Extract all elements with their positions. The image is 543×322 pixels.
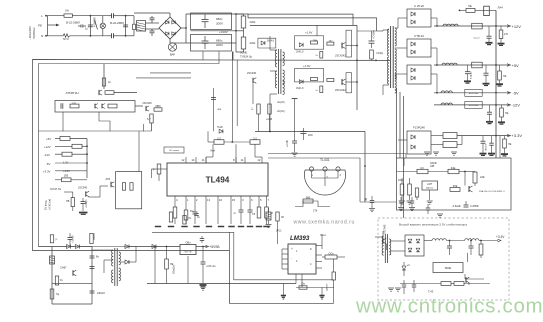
wire bridge right — [181, 27, 186, 29]
wire drive cell feed — [316, 25, 318, 35]
wire var2 lower bus — [400, 283, 441, 285]
svg-text:PE: PE — [38, 24, 42, 28]
resistor R96 — [50, 289, 54, 299]
wire jog — [295, 201, 313, 207]
ic box var2 — [433, 263, 463, 273]
LM393 pins left — [282, 248, 288, 250]
svg-text:Б-ЦМБГ: Б-ЦМБГ — [471, 70, 473, 79]
rail +5V coil — [442, 63, 457, 65]
svg-text:13: 13 — [207, 198, 211, 202]
svg-text:270: 270 — [504, 33, 509, 36]
wire top rail — [459, 9, 466, 11]
diode D44 — [152, 245, 156, 249]
IC U4 regulator — [180, 245, 196, 255]
resistor R14 — [108, 104, 117, 108]
rail -12V res — [500, 108, 504, 117]
wire vertical with bar — [292, 98, 298, 100]
wire box drops — [138, 131, 140, 171]
capacitor C80 — [90, 255, 95, 257]
svg-text:POWER: POWER — [92, 17, 96, 27]
T1 primary winding — [388, 29, 390, 56]
capacitor C24 small — [200, 238, 205, 240]
svg-text:1N14.8: 1N14.8 — [267, 41, 275, 43]
capacitor Cy — [88, 24, 93, 26]
resistor R1 220k — [241, 16, 246, 28]
wire row5 — [55, 170, 87, 172]
components below TL494 — [173, 207, 177, 218]
resistor R95 — [55, 276, 58, 285]
resistor R90 — [479, 244, 483, 255]
svg-text:50/60Hz: 50/60Hz — [32, 27, 36, 39]
resistor R22 — [62, 152, 72, 156]
svg-text:+10ч25: +10ч25 — [73, 235, 75, 243]
svg-text:680x: 680x — [216, 39, 223, 43]
wire standby mid — [52, 282, 92, 284]
resistor R65 — [327, 79, 334, 82]
capacitor C23 10n — [194, 213, 199, 215]
svg-text:2SC945: 2SC945 — [78, 187, 88, 190]
wire bridge top — [169, 13, 171, 17]
svg-text:КА-78: КА-78 — [185, 251, 192, 254]
diode D43 — [125, 260, 129, 264]
svg-text:ЧЧОГФ: ЧЧОГФ — [485, 143, 488, 151]
transistor Q17 — [252, 78, 254, 84]
wire standby right vertical — [91, 247, 93, 305]
IC U2 LM393 box — [288, 244, 316, 274]
svg-text:100n: 100n — [398, 180, 404, 182]
rail +3.3V res — [503, 139, 507, 148]
thermistor NTC — [63, 34, 70, 37]
svg-text:+12V: +12V — [44, 145, 51, 149]
T1 top lead — [377, 30, 383, 32]
svg-text:ООз: ООз — [328, 252, 334, 256]
svg-text:220k: 220k — [250, 20, 256, 24]
rail -5V coil — [441, 91, 452, 93]
wire T1 to rect mid — [395, 47, 398, 49]
svg-text:Vref: Vref — [210, 149, 215, 153]
transistor Q14 — [85, 191, 87, 196]
bold ground 12a — [486, 121, 493, 123]
capacitor series top — [111, 13, 113, 18]
wire TL431 down — [324, 181, 326, 186]
resistor R2 220k — [241, 37, 246, 49]
capacitor C62 — [427, 204, 429, 208]
main transformer T1 core — [390, 26, 392, 88]
wire top after fuse — [72, 15, 108, 17]
bead on rail +12V — [472, 23, 483, 29]
capacitor C5 — [150, 17, 155, 19]
fuse F1 — [64, 14, 72, 17]
svg-text:(РС): (РС) — [276, 229, 281, 233]
standby feed cap — [68, 237, 73, 239]
svg-text:АТВУ-НВч: АТВУ-НВч — [469, 92, 478, 95]
svg-text:2SC945: 2SC945 — [247, 72, 257, 75]
bold ground 5a — [464, 80, 471, 82]
T1 bottom lead — [383, 84, 389, 86]
wire t4 to bridge — [390, 240, 405, 242]
component M cluster — [154, 108, 162, 111]
resistors above TL494 — [214, 140, 224, 145]
capacitor C85 — [202, 247, 204, 263]
switch POWER — [95, 20, 98, 30]
capacitor C14 pol — [81, 201, 86, 203]
svg-text:+СЧ.Фчч: +СЧ.Фчч — [373, 29, 376, 39]
resistor R64 — [320, 86, 323, 93]
box ATBY1 — [465, 89, 482, 96]
capacitor C20 at 305 — [302, 128, 304, 132]
grounds 3v3 — [399, 200, 405, 202]
TL431 pins — [309, 167, 313, 171]
resistor R53 below — [332, 272, 335, 280]
snubber rect lower — [346, 73, 352, 93]
svg-text:-12V: -12V — [44, 153, 50, 157]
wires T1 down — [396, 88, 398, 158]
comparator row box — [55, 101, 135, 113]
transistor Q1 — [341, 43, 343, 49]
svg-text:+СФ.чАч: +СФ.чАч — [206, 265, 216, 268]
resistor R85 — [415, 188, 418, 197]
svg-text:5Е: 5Е — [468, 4, 472, 8]
wire mid right — [268, 153, 406, 155]
wire node to T1 — [356, 60, 358, 62]
rail +5V cap col a — [467, 65, 469, 72]
resistor R30 285 — [62, 178, 72, 182]
svg-text:+4,2V: +4,2V — [63, 169, 70, 173]
bold ground C14 — [79, 212, 88, 214]
resistor R21 — [72, 144, 82, 148]
wire aux vertical — [236, 60, 238, 126]
wire bottom after NTC — [70, 35, 108, 37]
wire 5vsb out — [196, 246, 207, 248]
capacitor Cx1 — [80, 25, 82, 28]
bold ground cap1 — [486, 42, 493, 44]
svg-text:5V вход: 5V вход — [44, 200, 48, 210]
driver transformer T2 — [278, 49, 280, 94]
upper drive cell box — [295, 36, 324, 49]
startup cap hatched — [50, 256, 55, 264]
wire R53 column to bus — [333, 288, 335, 304]
svg-text:27k: 27k — [313, 209, 318, 213]
grounds above box — [424, 151, 430, 153]
ground bus 1 — [200, 286, 206, 288]
svg-text:1Ф02Л: 1Ф02Л — [97, 292, 105, 295]
wire junction caps to outer — [232, 52, 234, 60]
capacitor C21 pol — [292, 140, 297, 142]
capacitor C61 — [411, 197, 413, 201]
svg-text:НЕ: НЕ — [508, 143, 512, 146]
capacitor C50 — [465, 201, 467, 205]
capacitor C82 — [90, 290, 95, 292]
capacitor C59 — [371, 196, 373, 201]
wire caps feed TL494 — [231, 52, 233, 143]
svg-text:+СЧФуч: +СЧФуч — [85, 199, 88, 208]
svg-text:ОВл: ОВл — [185, 241, 191, 245]
svg-text:12: 12 — [257, 158, 261, 162]
rail +3.3V cap b — [491, 136, 493, 143]
svg-text:www.cntronics.com: www.cntronics.com — [355, 295, 543, 318]
wire T2 right leads — [283, 51, 295, 53]
standby feed resistor b — [90, 234, 93, 244]
capacitor C70 — [449, 241, 451, 247]
svg-text:980: 980 — [306, 196, 311, 200]
wire T2 left leads — [270, 49, 277, 51]
svg-text:22Е: 22Е — [480, 175, 485, 179]
wires rect boxes — [398, 17, 407, 19]
box ATBY2 — [465, 101, 482, 108]
ground row below TL494 — [155, 226, 161, 228]
svg-text:B-22-26BЛ: B-22-26BЛ — [66, 21, 80, 25]
wire bottoms — [269, 94, 271, 132]
diode D10 1N4148 — [299, 43, 303, 47]
rail +5V wire — [434, 64, 510, 66]
wire pair short b — [136, 77, 191, 79]
resistor R54 — [299, 286, 307, 289]
wire var2 verticals — [464, 274, 466, 279]
svg-text:-5V: -5V — [513, 90, 520, 95]
svg-text:1,3V: 1,3V — [63, 161, 69, 165]
svg-text:2-2: 2-2 — [217, 137, 221, 141]
svg-text:ЦЛОбУ: ЦЛОбУ — [327, 283, 329, 291]
small box left of TL494 — [164, 147, 184, 153]
resistor R81 — [448, 169, 459, 173]
svg-text:16В: 16В — [430, 165, 435, 168]
capacitor Cy2 — [123, 24, 128, 26]
svg-text:-С: -С — [233, 212, 236, 215]
left wires TL494 — [158, 174, 160, 181]
wire standby top — [39, 244, 136, 246]
ground bold 2 — [321, 288, 323, 296]
svg-text:ТБЕ: ТБЕ — [313, 40, 318, 42]
wires block — [72, 192, 74, 198]
svg-text:11: 11 — [202, 158, 205, 162]
svg-text:+310V: +310V — [219, 30, 228, 34]
sense bus vertical — [86, 139, 88, 171]
resistor R63 — [311, 78, 318, 81]
resistor R51 — [276, 212, 279, 221]
svg-text:LM?: LM? — [427, 182, 433, 186]
rail +3.3V cap a — [482, 136, 484, 141]
svg-text:2SA-CH-C4+ТО9-4ЛВ1..3: 2SA-CH-C4+ТО9-4ЛВ1..3 — [479, 190, 505, 193]
wire HV bus lower — [248, 18, 377, 31]
svg-text:+1.6V: +1.6V — [303, 64, 311, 68]
svg-text:лчастг: лчастг — [473, 38, 480, 40]
wire bridge bottom — [169, 39, 171, 43]
svg-text:НЕ: НЕ — [505, 112, 509, 115]
svg-text:www.sxemka.narod.ru: www.sxemka.narod.ru — [294, 219, 355, 225]
wire caps to bridge — [152, 22, 159, 24]
wire box drop a — [62, 112, 64, 131]
wire inner loop — [39, 52, 220, 247]
svg-text:СЧ047: СЧ047 — [94, 232, 96, 240]
capacitor C22 kok — [213, 88, 215, 131]
svg-text:СН6Г: СН6Г — [60, 266, 67, 270]
wire right vertical 1 — [125, 16, 127, 36]
svg-text:Пч1Б: Пч1Б — [217, 127, 223, 129]
wire q10 up — [103, 75, 105, 89]
pin numbers top — [185, 157, 187, 163]
svg-text:РЕЗЕ: РЕЗЕ — [445, 267, 452, 270]
svg-text:12: 12 — [181, 158, 185, 162]
main output bus vertical — [495, 10, 497, 158]
rail +12V res 270 — [499, 30, 503, 39]
ground 5vsb bold — [200, 284, 207, 286]
wire input vertical — [47, 16, 49, 36]
svg-text:14: 14 — [191, 158, 195, 162]
snubber diode cluster — [258, 38, 276, 48]
wire connector to caps — [146, 22, 153, 24]
transistor pair Q11 Q12 — [94, 104, 96, 109]
diode D42 — [125, 245, 129, 249]
junction dots misc — [269, 131, 271, 133]
svg-text:N: N — [41, 34, 43, 38]
svg-text:НВ: НВ — [66, 200, 70, 203]
svg-text:ЛА4: ЛА4 — [498, 6, 504, 10]
T1 secondary lead top — [395, 27, 398, 29]
resistor R62 — [327, 42, 334, 45]
pin numbers bottom — [174, 196, 176, 203]
resistor R15 — [150, 114, 153, 123]
transistor Q15 — [110, 182, 112, 187]
wire standby bottom — [52, 303, 92, 305]
diode D12 on bus — [219, 129, 223, 133]
wire bottom bus — [147, 283, 296, 285]
diode D40 — [67, 245, 71, 249]
wire box to rail — [474, 183, 476, 186]
resistor R60 — [311, 41, 318, 44]
wire primary return loop outer — [33, 60, 391, 304]
resistor R80 — [417, 169, 428, 173]
wire AC top — [46, 15, 64, 17]
TL431 package outline — [305, 170, 346, 195]
svg-text:+3.3V: +3.3V — [43, 170, 51, 174]
rail -12V cap — [489, 105, 491, 112]
svg-text:+3.3V: +3.3V — [496, 235, 505, 239]
svg-text:+1.6V: +1.6V — [305, 31, 313, 35]
snubber rect upper — [346, 30, 352, 57]
coupled inductor L33 b — [443, 142, 457, 148]
T4 winding — [384, 234, 386, 263]
svg-text:Vout: Vout — [320, 233, 326, 237]
label -12V — [507, 104, 511, 107]
svg-text:NTC: NTC — [63, 37, 69, 41]
svg-text:2SC945: 2SC945 — [142, 101, 152, 105]
label -5V — [507, 92, 511, 95]
label +5V — [507, 64, 511, 67]
bold ground 12b — [498, 121, 505, 123]
wire feedback right — [268, 165, 397, 167]
svg-text:Т.43: Т.43 — [428, 290, 434, 294]
wire feedback top long — [255, 131, 365, 133]
standby transformer T3 — [114, 248, 116, 286]
svg-text:АТВУ-НВч: АТВУ-НВч — [469, 104, 478, 107]
svg-text:16: 16 — [219, 198, 223, 202]
svg-text:НЕ: НЕ — [503, 75, 507, 78]
LM393 pins right — [316, 245, 322, 247]
wire AC bottom — [46, 35, 63, 37]
svg-text:-: - — [291, 256, 292, 260]
inductor L70 vertical — [484, 6, 490, 15]
svg-text:C 25-20: C 25-20 — [414, 4, 424, 8]
wire tl494 gnd drop — [228, 232, 230, 250]
svg-text:ЗЛЕ: ЗЛЕ — [453, 185, 458, 188]
wire diodebox jogs — [431, 17, 437, 19]
bold ground 33a — [480, 153, 487, 155]
resistor R12 — [105, 91, 114, 95]
rail -12V coil — [441, 103, 452, 105]
resistor R18 — [257, 104, 260, 114]
resistor R50 980 — [303, 199, 313, 203]
diode D41 — [76, 245, 80, 249]
bridge rectifier BR1 — [159, 17, 181, 39]
svg-text:AT6ЯT2H: AT6ЯT2H — [65, 91, 78, 95]
T1 secondary winding — [395, 28, 397, 46]
wire mid vertical — [89, 16, 91, 36]
block box right — [116, 172, 142, 209]
svg-text:B-22-26BЛ: B-22-26BЛ — [110, 21, 124, 25]
svg-text:220k: 220k — [250, 41, 256, 45]
svg-text:F13PQ40: F13PQ40 — [413, 126, 425, 130]
wire pair short a — [150, 72, 191, 74]
wire to connector — [126, 15, 134, 17]
svg-text:+5 КСтаб: +5 КСтаб — [48, 198, 52, 210]
svg-text:КЗ: КЗ — [420, 166, 423, 170]
svg-text:2SC4242: 2SC4242 — [335, 54, 346, 58]
inductor input — [133, 24, 136, 29]
transistor Q10 — [98, 90, 100, 95]
resistor R13 — [70, 104, 79, 108]
wire row4 — [55, 162, 87, 164]
rail +5V cap col b — [485, 65, 487, 73]
wire row to right — [135, 105, 143, 107]
svg-text:+СЧФ: +СЧФ — [286, 140, 289, 147]
connector CON1 — [137, 21, 146, 32]
vertical drops 5vsb — [154, 247, 156, 284]
ground C21 — [292, 152, 298, 154]
svg-text:ВАР: ВАР — [170, 53, 175, 57]
svg-text:-0.5мкФ: -0.5мкФ — [452, 205, 461, 208]
capacitor C73 — [412, 284, 417, 286]
svg-text:200V: 200V — [216, 43, 223, 47]
wire HV bus top — [236, 13, 248, 15]
svg-text:15: 15 — [232, 198, 236, 202]
svg-text:+3.3V: +3.3V — [512, 133, 523, 138]
inductor L81 — [465, 239, 479, 241]
wires 3v3 box — [403, 158, 405, 166]
svg-text:КО(Ω): КО(Ω) — [377, 52, 384, 55]
capacitor C72 — [403, 280, 405, 284]
svg-text:LM393: LM393 — [290, 235, 310, 242]
svg-text:AdjVout: AdjVout — [426, 187, 433, 190]
svg-text:5-?: 5-? — [147, 118, 151, 121]
svg-text:1N41.8: 1N41.8 — [296, 52, 304, 54]
capacitor C30 — [266, 212, 271, 220]
capacitor in row — [60, 103, 62, 109]
resistor R86 — [450, 188, 460, 192]
svg-text:CTB-34: CTB-34 — [414, 34, 424, 38]
bold ground 5c — [496, 83, 503, 85]
regulator box 3V3 — [397, 158, 512, 210]
svg-text:нЧ(об): нЧ(об) — [277, 110, 285, 113]
wire bottom bus 2 — [296, 287, 334, 289]
rectifier box D22 — [407, 65, 431, 84]
grounds var2 — [388, 287, 394, 289]
ground cluster2 — [437, 213, 443, 215]
resistor R92 — [454, 282, 464, 286]
svg-text:ТУ9154 Зд: ТУ9154 Зд — [240, 56, 252, 59]
wire second bus into box — [499, 136, 501, 158]
svg-text:АГБ: АГБ — [106, 178, 111, 181]
half bridge node wire — [356, 25, 358, 110]
